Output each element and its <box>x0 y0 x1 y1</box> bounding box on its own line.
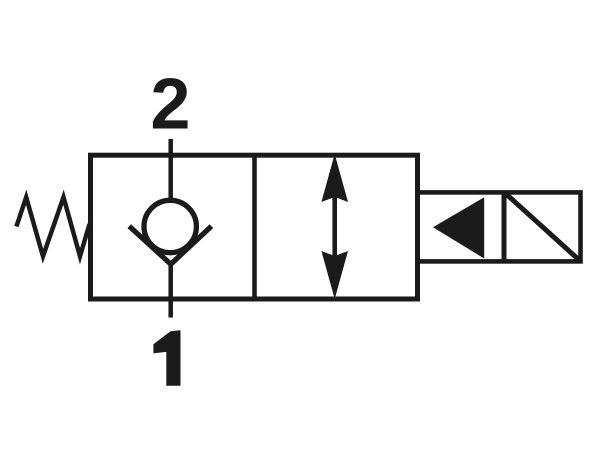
port label 1 <box>153 330 180 386</box>
flow arrow shaft <box>332 196 337 258</box>
position divider <box>252 155 257 299</box>
check valve seat right arm <box>171 226 212 264</box>
flow arrow head up <box>321 154 348 202</box>
flow arrow head down <box>321 251 348 299</box>
svg-text:2: 2 <box>150 65 190 145</box>
solenoid divider <box>502 192 507 261</box>
valve body box <box>91 155 418 299</box>
solenoid triangle <box>433 197 484 258</box>
solenoid box <box>418 192 581 261</box>
check valve ball C1 <box>144 200 196 252</box>
check valve seat left arm <box>129 226 171 264</box>
port line 2 <box>168 139 173 200</box>
port line 1 <box>168 263 173 318</box>
spring <box>16 197 89 256</box>
solenoid diagonal <box>507 195 578 260</box>
